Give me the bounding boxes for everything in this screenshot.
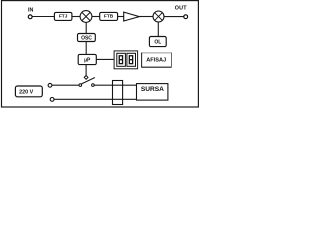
svg-text:OUT: OUT [175,6,187,12]
svg-text:µP: µP [84,58,91,64]
svg-text:220 V: 220 V [19,89,33,95]
svg-text:IN: IN [28,7,33,13]
svg-text:FTJ: FTJ [59,13,68,19]
svg-text:AFISAJ: AFISAJ [146,57,166,63]
svg-text:FTB: FTB [104,13,114,19]
svg-text:OSC: OSC [81,35,92,41]
svg-text:OL: OL [154,39,161,45]
svg-text:SURSA: SURSA [141,86,164,93]
